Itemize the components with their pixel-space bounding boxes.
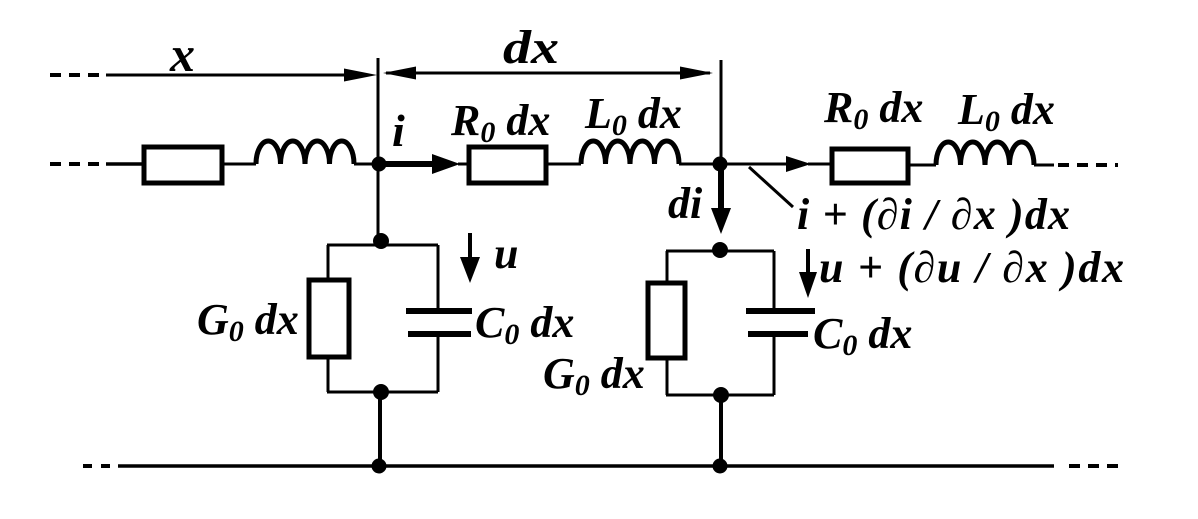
return conductor: [118, 464, 1054, 468]
return conductor dashed right end: [1069, 464, 1118, 468]
svg-text:R0 dx: R0 dx: [450, 96, 550, 149]
shunt 2 top horizontal wire: [666, 250, 774, 253]
svg-text:i + (∂i / ∂x )dx: i + (∂i / ∂x )dx: [797, 190, 1070, 239]
wire: [679, 163, 719, 166]
conductance G0 dx (first): [309, 280, 349, 357]
svg-text:dx: dx: [503, 21, 559, 74]
capacitor C0 dx (first) bottom plate: [408, 331, 471, 337]
dimension arrowhead right at tick x=378: [344, 69, 377, 82]
return conductor junction dot 2: [713, 459, 728, 474]
shunt 1 right lead (capacitor top): [437, 245, 440, 309]
svg-text:u + (∂u / ∂x )dx: u + (∂u / ∂x )dx: [819, 243, 1124, 292]
shunt 2 lead below capacitor: [773, 336, 776, 395]
dimension line dx: [386, 72, 710, 75]
shunt 2 right lead (capacitor top): [773, 251, 776, 309]
wire: [808, 163, 830, 166]
inductor L0 dx (second): [936, 142, 1034, 165]
svg-text:C0 dx: C0 dx: [813, 309, 912, 362]
resistor R0 dx (second): [832, 149, 908, 183]
dimension line x (dashed lead-in): [50, 73, 100, 77]
capacitor C0 dx (second) bottom plate: [748, 331, 808, 337]
svg-text:x: x: [169, 26, 195, 82]
return conductor junction dot 1: [372, 459, 387, 474]
shunt 1 lead below capacitor: [437, 336, 440, 392]
capacitor C0 dx (first) top plate: [406, 308, 472, 314]
series resistor (left, unlabeled): [144, 147, 222, 183]
shunt 1 lead below G box: [327, 357, 330, 392]
node 1 junction dot: [372, 157, 387, 172]
series inductor (left, unlabeled): [256, 141, 354, 164]
svg-text:i: i: [392, 105, 405, 156]
wire: [1034, 164, 1054, 167]
shunt 1 wire to return conductor: [378, 392, 382, 466]
main wire dashed right end: [1058, 163, 1118, 167]
shunt 2 left lead: [666, 251, 669, 283]
svg-text:C0 dx: C0 dx: [475, 298, 574, 351]
shunt 2 wire to return conductor: [719, 395, 723, 466]
shunt branch 1: top junction dot: [373, 233, 389, 249]
shunt 2 lead below G box: [666, 358, 669, 395]
current arrow i (bold): [385, 161, 437, 167]
wire with arrow i+(di/dx)dx: [726, 163, 789, 166]
shunt branch 2: top junction dot: [712, 242, 728, 258]
main wire dashed left end: [50, 162, 100, 166]
wire: [909, 164, 936, 167]
shunt 1 left lead: [327, 245, 330, 280]
node 2 junction dot: [713, 157, 728, 172]
svg-text:L0 dx: L0 dx: [584, 89, 682, 142]
shunt 1 top horizontal wire: [327, 244, 438, 247]
resistor R0 dx (first): [469, 147, 546, 183]
svg-text:R0 dx: R0 dx: [823, 83, 923, 136]
voltage arrow u+(du/dx)dx (down): [806, 249, 810, 276]
wire: [106, 162, 145, 166]
wire: [224, 163, 256, 166]
svg-text:u: u: [494, 229, 518, 278]
branch current arrow di (bold, down): [718, 166, 724, 213]
shunt 2 bottom horizontal wire: [666, 394, 774, 397]
inductor L0 dx (first): [581, 141, 679, 164]
conductance G0 dx (second): [648, 283, 685, 358]
svg-text:di: di: [668, 179, 703, 228]
shunt 1 bottom junction dot: [373, 384, 389, 400]
wire: [458, 163, 467, 166]
shunt 1 bottom horizontal wire: [327, 391, 438, 394]
dimension arrowhead right: [680, 67, 713, 80]
svg-text:G0 dx: G0 dx: [197, 295, 299, 348]
svg-text:G0 dx: G0 dx: [543, 349, 645, 402]
svg-text:L0 dx: L0 dx: [957, 85, 1055, 138]
shunt 2 bottom junction dot: [713, 387, 729, 403]
wire: [546, 163, 581, 166]
tick / vertical wire at node 2: [720, 60, 723, 165]
voltage arrow u (down): [468, 233, 472, 261]
capacitor C0 dx (second) top plate: [746, 308, 815, 314]
return conductor dashed left end: [83, 464, 112, 468]
pointer line to i+(di/dx)dx: [749, 167, 793, 207]
dimension arrowhead left: [383, 67, 416, 80]
wire: [354, 163, 378, 166]
tick / vertical wire at node 1: [377, 58, 380, 242]
dimension line x: [106, 74, 352, 77]
